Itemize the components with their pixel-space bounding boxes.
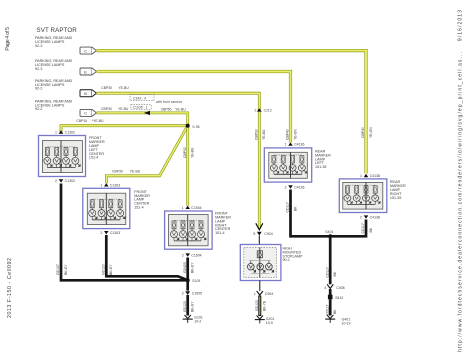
- svg-text:*YE-BU: *YE-BU: [92, 119, 104, 123]
- svg-text:C904: C904: [264, 232, 272, 236]
- wire CBP40 YE-GN feed1 to rear marker right: [97, 51, 367, 174]
- svg-text:C1303: C1303: [110, 231, 120, 235]
- splice S-98: [186, 124, 190, 128]
- svg-text:GD123: GD123: [255, 300, 259, 311]
- connector arrow C (feed 1): [80, 47, 97, 54]
- svg-text:90-1: 90-1: [283, 258, 290, 262]
- svg-text:CD117: CD117: [361, 223, 365, 233]
- svg-text:C4136: C4136: [294, 185, 304, 189]
- svg-text:CBP30: CBP30: [255, 129, 259, 140]
- wire GD137 BK-GY front marker left center to splice S109: [61, 184, 188, 281]
- svg-text:1: 1: [182, 206, 184, 210]
- svg-text:S404: S404: [325, 230, 333, 234]
- svg-text:CBP50: CBP50: [161, 107, 172, 111]
- svg-text:C212: C212: [264, 109, 272, 113]
- svg-text:10-9: 10-9: [266, 321, 273, 325]
- wire C408 to splice S412: [329, 289, 332, 297]
- svg-text:with front camera: with front camera: [156, 100, 182, 104]
- svg-text:GD137: GD137: [56, 264, 60, 275]
- svg-text:CBP40: CBP40: [361, 127, 365, 138]
- wire CBP30 YE-BU feed3 to high mounted stoplamp: [97, 93, 260, 228]
- wire label CBP30 YE-BU (to lamp center): [112, 169, 141, 173]
- svg-text:CBP30: CBP30: [112, 169, 123, 173]
- svg-text:C4136: C4136: [294, 143, 304, 147]
- splice S412: [328, 295, 344, 301]
- svg-text:10-2: 10-2: [194, 320, 201, 324]
- svg-text:10-19: 10-19: [342, 321, 351, 325]
- feed group 4 label: [35, 99, 73, 111]
- svg-text:101-4: 101-4: [215, 231, 224, 235]
- connector arrow C (feed 4): [80, 109, 97, 116]
- splice S109: [186, 278, 190, 282]
- svg-text:B: B: [84, 91, 87, 96]
- svg-text:SVT RAPTOR: SVT RAPTOR: [37, 27, 78, 34]
- wire CD117 BK rear marker right to splice S404: [330, 220, 366, 237]
- svg-text:S-98: S-98: [192, 125, 199, 129]
- svg-text:YE-BU: YE-BU: [118, 107, 129, 111]
- ground G401: [325, 315, 350, 325]
- svg-text:C1035 - 1: C1035 - 1: [133, 106, 148, 110]
- vertical wire label CBP30 YE-BU (C212 down): [255, 129, 267, 140]
- svg-text:BK-GY: BK-GY: [191, 301, 195, 312]
- svg-text:CD117: CD117: [325, 267, 329, 277]
- svg-text:BK: BK: [333, 309, 337, 314]
- lamp U6 REAR MARKER LAMP RIGHT: [339, 174, 406, 220]
- svg-text:C1504: C1504: [191, 206, 201, 210]
- svg-text:C1303: C1303: [110, 183, 120, 187]
- svg-text:1: 1: [360, 174, 362, 178]
- wire label CBP30 YE-BU (feed4): [101, 107, 129, 111]
- svg-text:2: 2: [55, 179, 57, 183]
- lamp U1 FRONT MARKER LAMP LEFT CENTER: [39, 130, 106, 183]
- wire CBP30 YE-BU splice S-98 down to front marker right center: [186, 126, 189, 206]
- wire CD117 BK rear marker left to splice S404: [291, 190, 331, 237]
- inline connector C1035-1 callout: [131, 105, 151, 116]
- lamp U3 FRONT MARKER LAMP RIGHT CENTER: [165, 206, 232, 258]
- wire CBP30 YE-BU splice S-98 to front marker lamp center: [106, 126, 187, 184]
- svg-text:2013 F-150 - Cell092: 2013 F-150 - Cell092: [7, 258, 13, 318]
- svg-text:CD117: CD117: [325, 305, 329, 315]
- vertical wire label CBP40 YE-GN (to rear right): [361, 127, 373, 138]
- wire CBP40 YE-GN feed2 to rear marker left: [97, 72, 291, 143]
- ground G201: [255, 316, 275, 325]
- svg-text:2: 2: [100, 231, 102, 235]
- svg-text:C1504: C1504: [191, 253, 201, 257]
- svg-text:C: C: [84, 111, 87, 116]
- dashed option box C343-4 with front camera: [130, 95, 182, 104]
- svg-text:YE-GN: YE-GN: [369, 127, 373, 138]
- svg-text:C1302: C1302: [65, 131, 75, 135]
- svg-text:CD117: CD117: [286, 202, 290, 212]
- svg-text:BK: BK: [369, 227, 373, 232]
- wire GD123 BK-GY C1505 to ground G101: [186, 295, 189, 316]
- svg-text:C1505: C1505: [192, 292, 202, 296]
- wire label CBP50 YE-BU: [161, 107, 187, 111]
- svg-text:5: 5: [253, 232, 255, 236]
- svg-text:CBP30: CBP30: [101, 86, 112, 90]
- splice S404: [328, 234, 332, 238]
- wire GD123 BK-YE stoplamp to ground: [258, 296, 261, 317]
- feed group 1 label: [35, 36, 73, 48]
- svg-text:C4138: C4138: [370, 174, 380, 178]
- svg-text:C408: C408: [336, 286, 344, 290]
- svg-text:E: E: [84, 69, 87, 74]
- svg-text:151-35: 151-35: [315, 165, 326, 169]
- connector arrow B (feed 3): [80, 90, 97, 97]
- connector C904 pin 5 at stoplamp feed: [253, 223, 272, 244]
- wire CD117 BK S404 down to C408: [329, 236, 332, 284]
- wire CBP10 YE-BU splice S-98 to front marker left center: [61, 126, 188, 133]
- svg-text:C904: C904: [265, 292, 273, 296]
- svg-text:S109: S109: [192, 279, 200, 283]
- svg-text:2: 2: [182, 292, 184, 296]
- lamp U4 HIGH MOUNTED STOPLAMP: [240, 245, 303, 281]
- svg-text:http://www.fordtechservice.dea: http://www.fordtechservice.dealerconnect…: [458, 10, 464, 352]
- svg-text:BK: BK: [293, 206, 297, 211]
- lamp U5 REAR MARKER LAMP LEFT: [264, 142, 331, 189]
- wire GD120 BK-GY front marker center to splice S109: [106, 235, 187, 280]
- wire S109 to inline connector C1505: [186, 280, 189, 290]
- svg-text:2: 2: [360, 215, 362, 219]
- svg-text:YE-BU: YE-BU: [262, 129, 266, 140]
- svg-text:C1302: C1302: [65, 179, 75, 183]
- inline connector C408: [324, 284, 344, 290]
- svg-text:BK-GY: BK-GY: [109, 264, 113, 275]
- svg-text:C4138: C4138: [370, 215, 380, 219]
- connector C904 pin 1 below stoplamp: [254, 281, 273, 296]
- svg-text:BK: BK: [333, 271, 337, 276]
- svg-text:151-4: 151-4: [89, 156, 98, 160]
- svg-text:2: 2: [182, 253, 184, 257]
- wire CBP30 YE-BU feed4 to splice S-98: [97, 113, 188, 126]
- svg-text:Page 4 of 5: Page 4 of 5: [5, 27, 11, 51]
- feed group 2 label: [35, 59, 73, 71]
- ground G101: [183, 315, 203, 324]
- svg-text:CBP30: CBP30: [183, 147, 187, 158]
- svg-text:S412: S412: [335, 296, 343, 300]
- svg-text:CBP40: CBP40: [286, 129, 290, 140]
- feed group 3 label: [35, 79, 73, 91]
- svg-text:151-35: 151-35: [390, 196, 401, 200]
- svg-text:151-4: 151-4: [134, 206, 143, 210]
- svg-text:2: 2: [255, 109, 257, 113]
- wire CD117 BK S412 to ground G401: [329, 299, 332, 315]
- svg-text:92-3: 92-3: [35, 67, 42, 71]
- lamp U2 FRONT MARKER LAMP CENTER: [83, 183, 151, 235]
- svg-text:1: 1: [254, 292, 256, 296]
- svg-text:YE-BU: YE-BU: [118, 86, 129, 90]
- svg-text:CBP30: CBP30: [101, 107, 112, 111]
- svg-text:2: 2: [285, 185, 287, 189]
- wire label CBP30 YE-BU (feed3): [101, 86, 129, 90]
- wire GD425 BK-GY front marker right center to splice S109: [186, 258, 189, 281]
- wire label CBP10 *YE-BU: [76, 119, 104, 123]
- svg-text:92-2: 92-2: [35, 87, 42, 91]
- svg-text:GD120: GD120: [102, 264, 106, 275]
- connector arrow E (feed 2): [80, 68, 97, 75]
- inline connector C212: [255, 108, 272, 112]
- svg-text:YE-BU: YE-BU: [191, 147, 195, 158]
- svg-text:YE-BU: YE-BU: [175, 107, 186, 111]
- inline connector C1505: [182, 291, 202, 295]
- vertical wire label CBP30 YE-BU (S-98 down): [183, 147, 195, 158]
- svg-text:4: 4: [324, 286, 326, 290]
- svg-text:1: 1: [55, 131, 57, 135]
- svg-text:92-3: 92-3: [35, 44, 42, 48]
- svg-text:CBP10: CBP10: [76, 119, 87, 123]
- svg-text:1: 1: [100, 183, 102, 187]
- svg-text:BK-YE: BK-YE: [263, 300, 267, 311]
- svg-text:BK-GY: BK-GY: [64, 264, 68, 275]
- svg-text:C343 - 4: C343 - 4: [133, 96, 146, 100]
- svg-text:GD123: GD123: [183, 301, 187, 312]
- svg-text:YE-GN: YE-GN: [293, 129, 297, 140]
- svg-text:C: C: [84, 48, 87, 53]
- svg-text:1: 1: [285, 143, 287, 147]
- svg-text:YE-BU: YE-BU: [130, 169, 141, 173]
- svg-text:92-2: 92-2: [35, 107, 42, 111]
- svg-text:BK-GY: BK-GY: [191, 262, 195, 273]
- svg-text:GD425: GD425: [183, 262, 187, 273]
- vertical wire label CBP40 YE-GN (to rear left): [286, 129, 298, 140]
